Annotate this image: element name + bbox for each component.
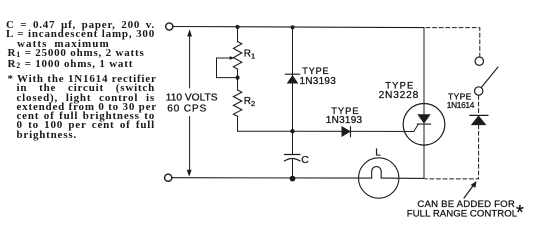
wire: bottom bus [172,177,424,180]
diode CR2 1N3193 (series gate diode) [342,127,351,137]
wire: diode branch (top bus down to gate node) [292,27,294,131]
dashed wire: diode to bottom bus [425,125,479,179]
source arrow: 110 volts 60 cps [187,29,192,177]
svg-text:*: * [516,202,524,224]
label TYPE 1N3193 (gate diode) [326,105,363,126]
node: top bus / R1 branch junction [235,25,239,29]
svg-text:FULL RANGE CONTROL: FULL RANGE CONTROL [407,208,518,219]
dashed wire: top bus extension to optional branch [426,28,480,57]
terminal: AC input bottom [165,174,172,181]
diode CR1 1N3193 (vertical, shunt) [285,74,299,83]
lamp L filament [372,167,382,179]
resistor R2 [233,90,241,116]
label TYPE 2N3228 [379,79,420,101]
component values text block [6,21,155,70]
node: gate junction [290,129,294,133]
svg-text:1N3193: 1N3193 [326,115,363,126]
svg-text:1N1614: 1N1614 [447,100,475,110]
svg-text:TYPE: TYPE [385,79,414,90]
svg-text:110 VOLTS: 110 VOLTS [166,93,218,104]
wire: R1 bottom to junction [237,69,239,90]
wiper arm of R1 [217,56,236,78]
svg-text:60 CPS: 60 CPS [167,103,207,114]
SCR 2N3228 [403,104,445,146]
potentiometer R1 [233,42,241,70]
svg-text:2N3228: 2N3228 [379,90,420,101]
terminal: AC input top [166,23,173,30]
capacitor C [284,131,300,178]
svg-text:L: L [375,147,381,158]
svg-text:1N3193: 1N3193 [300,76,337,87]
annotation arrow [464,181,477,198]
label TYPE 1N1614 [447,92,475,111]
label R1 [244,48,255,60]
node: R1/R2/wiper junction [235,76,239,80]
wire: anode from top bus to SCR [423,28,425,114]
svg-text:R2: R2 [244,96,255,108]
label L [375,147,381,158]
wire: top bus to R1 [237,27,239,42]
label TYPE 1N3193 (shunt diode) [300,66,337,87]
label: 110 VOLTS 60 CPS [166,93,218,115]
node: top bus / diode branch junction [290,25,294,29]
wire: SCR cathode to bottom bus [423,124,425,178]
switch S1 [475,57,499,95]
label R2 [244,96,255,108]
wire: gate line to SCR [293,125,419,132]
diode CR3 1N1614 [470,115,488,124]
dashed wire: switch to diode 1N1614 [478,95,480,113]
svg-text:R1: R1 [244,48,255,60]
wire: R2 bottom to gate node [238,116,293,131]
footnote text block [6,75,155,140]
lamp L envelope [359,158,399,198]
label C [301,155,309,166]
svg-text:TYPE: TYPE [302,66,329,76]
node: capacitor bottom junction [290,176,296,182]
wire: top bus [173,27,424,28]
annotation: CAN BE ADDED FOR FULL RANGE CONTROL [407,199,524,224]
svg-text:C: C [301,155,309,166]
